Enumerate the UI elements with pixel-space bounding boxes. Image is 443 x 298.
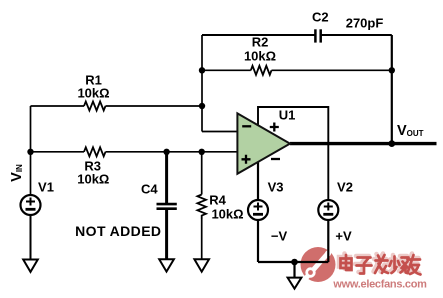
wire: R4 top branch (201, 152, 203, 195)
label U1 (279, 109, 296, 122)
watermark glyph halo (339, 254, 419, 274)
label R3 value (77, 172, 109, 185)
watermark logo circle (301, 247, 336, 282)
label C2 (312, 11, 329, 24)
watermark url text (333, 279, 426, 290)
wire: bottom supply rail (258, 261, 328, 263)
op-amp positive supply plus symbol (270, 123, 279, 132)
wire: VIN left column (30, 106, 32, 195)
wire: R3 line to non-inverting input (106, 151, 238, 153)
label R4 value (211, 208, 243, 221)
wire: R3 line left segment (31, 151, 85, 153)
wire: top feedback line left of C2 (202, 34, 315, 36)
ground under R4 (194, 259, 209, 271)
wire: R2 line right segment (272, 69, 392, 71)
label V1 (38, 180, 54, 193)
voltage source V2 (318, 200, 338, 220)
voltage source V3 (248, 200, 268, 220)
label +V (335, 230, 351, 243)
wire: inverting input wire (202, 131, 237, 133)
label C4 (141, 182, 158, 195)
resistor R3 (84, 147, 106, 156)
wire: left feedback vertical (C2/R2/R1 node column) (201, 35, 203, 132)
label NOT ADDED (75, 224, 161, 238)
junction node: supply rail ground (291, 259, 298, 266)
watermark glyph red strokes (341, 255, 421, 275)
junction node: R1 right (199, 103, 205, 109)
junction node: C4 top (163, 149, 169, 155)
ground under V1 (23, 260, 38, 272)
label VIN (9, 164, 24, 182)
op-amp negative supply minus symbol (271, 158, 280, 160)
junction node: R4 top (199, 149, 205, 155)
label V2 (337, 180, 353, 193)
wire: op-amp output line (290, 142, 437, 145)
wire: R1 line right segment (106, 105, 203, 107)
capacitor C4 (157, 204, 177, 209)
junction node: VIN (27, 149, 33, 155)
label VOUT (397, 124, 424, 139)
junction node: VOUT (388, 140, 395, 147)
label R4 (209, 193, 226, 206)
wire: V2 bottom to rail (327, 220, 329, 262)
label V3 (268, 180, 284, 193)
wire: positive supply rail rectangle (258, 107, 328, 200)
wire: V1 to ground (30, 215, 32, 259)
label R1 value (77, 87, 109, 100)
label 270pF (346, 17, 384, 30)
op-amp U1 triangle (237, 113, 290, 173)
junction node: R2 left (199, 67, 205, 73)
junction node: R2 right (389, 67, 395, 73)
wire: C4 top branch (165, 152, 168, 203)
wire: right feedback vertical to VOUT node (391, 35, 393, 144)
capacitor C2 (315, 29, 320, 42)
resistor R2 (251, 66, 272, 75)
wire: op-amp negative supply to V3 (257, 161, 259, 201)
ground under supply rail node (288, 278, 302, 289)
label R1 (85, 74, 102, 87)
wire: C4 bottom branch to ground (165, 210, 168, 260)
wire: R2 line left segment (202, 69, 251, 71)
resistor R1 (84, 102, 106, 111)
label R3 (84, 160, 101, 173)
label -V (271, 230, 287, 243)
op-amp non-inverting input plus symbol (242, 155, 251, 164)
wire: V3 bottom to rail (257, 220, 259, 262)
label R2 value (244, 50, 276, 63)
ground under C4 (159, 259, 174, 271)
voltage source V1 (21, 195, 41, 215)
resistor R4 (197, 195, 206, 220)
label R2 (252, 36, 269, 49)
op-amp inverting input minus symbol (242, 125, 251, 127)
wire: R1 line left segment (31, 105, 85, 107)
wire: rail node to ground stem (293, 262, 295, 278)
wire: top feedback line right of C2 (322, 34, 392, 36)
wire: R4 bottom branch to ground (201, 219, 203, 259)
